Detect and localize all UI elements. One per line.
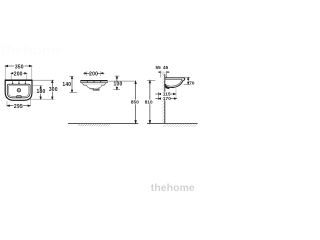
svg-text:200: 200 — [89, 71, 98, 77]
svg-text:350: 350 — [15, 64, 24, 70]
wall hatching — [162, 74, 165, 123]
body outline — [81, 81, 108, 88]
basin profile rim — [165, 78, 185, 80]
bowl underside shadow — [89, 89, 99, 90]
svg-text:295: 295 — [14, 104, 23, 110]
rim second line — [81, 82, 108, 84]
svg-text:100: 100 — [114, 82, 123, 88]
dim 810 — [149, 80, 151, 123]
dim 140 ticks — [69, 75, 73, 77]
svg-text:200: 200 — [14, 71, 23, 77]
ext vertical right for 115/170 — [175, 89, 177, 99]
floor hatching (side view) — [163, 124, 197, 127]
tap axis tick above rim — [166, 75, 168, 77]
dim 200 (top view) — [11, 73, 27, 75]
svg-text:140: 140 — [62, 82, 71, 88]
basin inner bowl inner line — [9, 85, 29, 96]
svg-text:170: 170 — [163, 96, 171, 101]
dim 200 (front) — [83, 73, 104, 75]
tap hole tick left — [12, 81, 26, 85]
dim 350 extension lines — [4, 66, 6, 80]
basin inner bowl outer line — [7, 84, 30, 98]
dim 850 — [135, 81, 137, 123]
dim 55/45 extension lines — [160, 71, 162, 78]
svg-text:thehome: thehome — [1, 42, 64, 59]
ext line top for dim 300 — [32, 79, 54, 81]
floor line (side view) — [147, 123, 198, 125]
svg-text:300: 300 — [49, 87, 58, 93]
dim 100 ticks — [115, 75, 120, 77]
svg-text:850: 850 — [131, 100, 139, 105]
inner deck line — [84, 83, 105, 85]
dim 70 — [187, 77, 189, 84]
dim 810 ext line — [147, 79, 155, 81]
basin outer outline — [5, 80, 32, 100]
svg-text:thehome: thehome — [151, 183, 195, 194]
tap hole tick center — [18, 81, 20, 83]
dim 170 — [155, 98, 176, 100]
dim 300 — [52, 80, 54, 99]
floor hatching (front view) — [78, 124, 110, 127]
dim 115 — [155, 93, 175, 95]
top view back edge bold — [5, 79, 32, 81]
dim 350 — [5, 65, 32, 67]
floor line (front view) — [68, 123, 138, 125]
ext line front for dims 180/300 — [29, 98, 54, 100]
white mask under 115/170 texts over wall — [163, 92, 171, 101]
drain ellipse — [16, 95, 21, 97]
ext vertical left for 115/170 — [158, 92, 160, 100]
svg-text:55: 55 — [156, 65, 162, 70]
dim 140 — [71, 76, 73, 92]
svg-text:810: 810 — [145, 100, 153, 105]
ext line back ledge for dim 180 — [31, 85, 43, 87]
dim 180 — [40, 86, 42, 99]
dim 295 — [7, 105, 30, 107]
tap hole tick right — [24, 81, 26, 83]
drain stub — [93, 88, 99, 90]
basin profile underside — [165, 80, 183, 87]
dim 200 (front) ext lines — [86, 71, 88, 76]
dim 200 (top view) extension lines — [10, 74, 12, 80]
wall top cap — [162, 73, 165, 75]
dim 55/45 lines — [158, 71, 170, 72]
trap shadow at wall — [165, 84, 169, 88]
rim top line — [80, 80, 107, 82]
dim 70 ext lines — [184, 76, 190, 78]
svg-text:45: 45 — [163, 65, 169, 70]
tap holes dots — [87, 81, 88, 82]
svg-text:180: 180 — [37, 89, 46, 95]
dim 295 extension lines — [6, 101, 8, 106]
dim 850 ext line from rim — [108, 80, 135, 82]
basin profile inner bowl — [165, 79, 182, 86]
svg-text:70: 70 — [189, 80, 195, 85]
wall line — [164, 74, 166, 124]
dim 100 — [116, 76, 118, 90]
faucet hole — [17, 89, 20, 92]
